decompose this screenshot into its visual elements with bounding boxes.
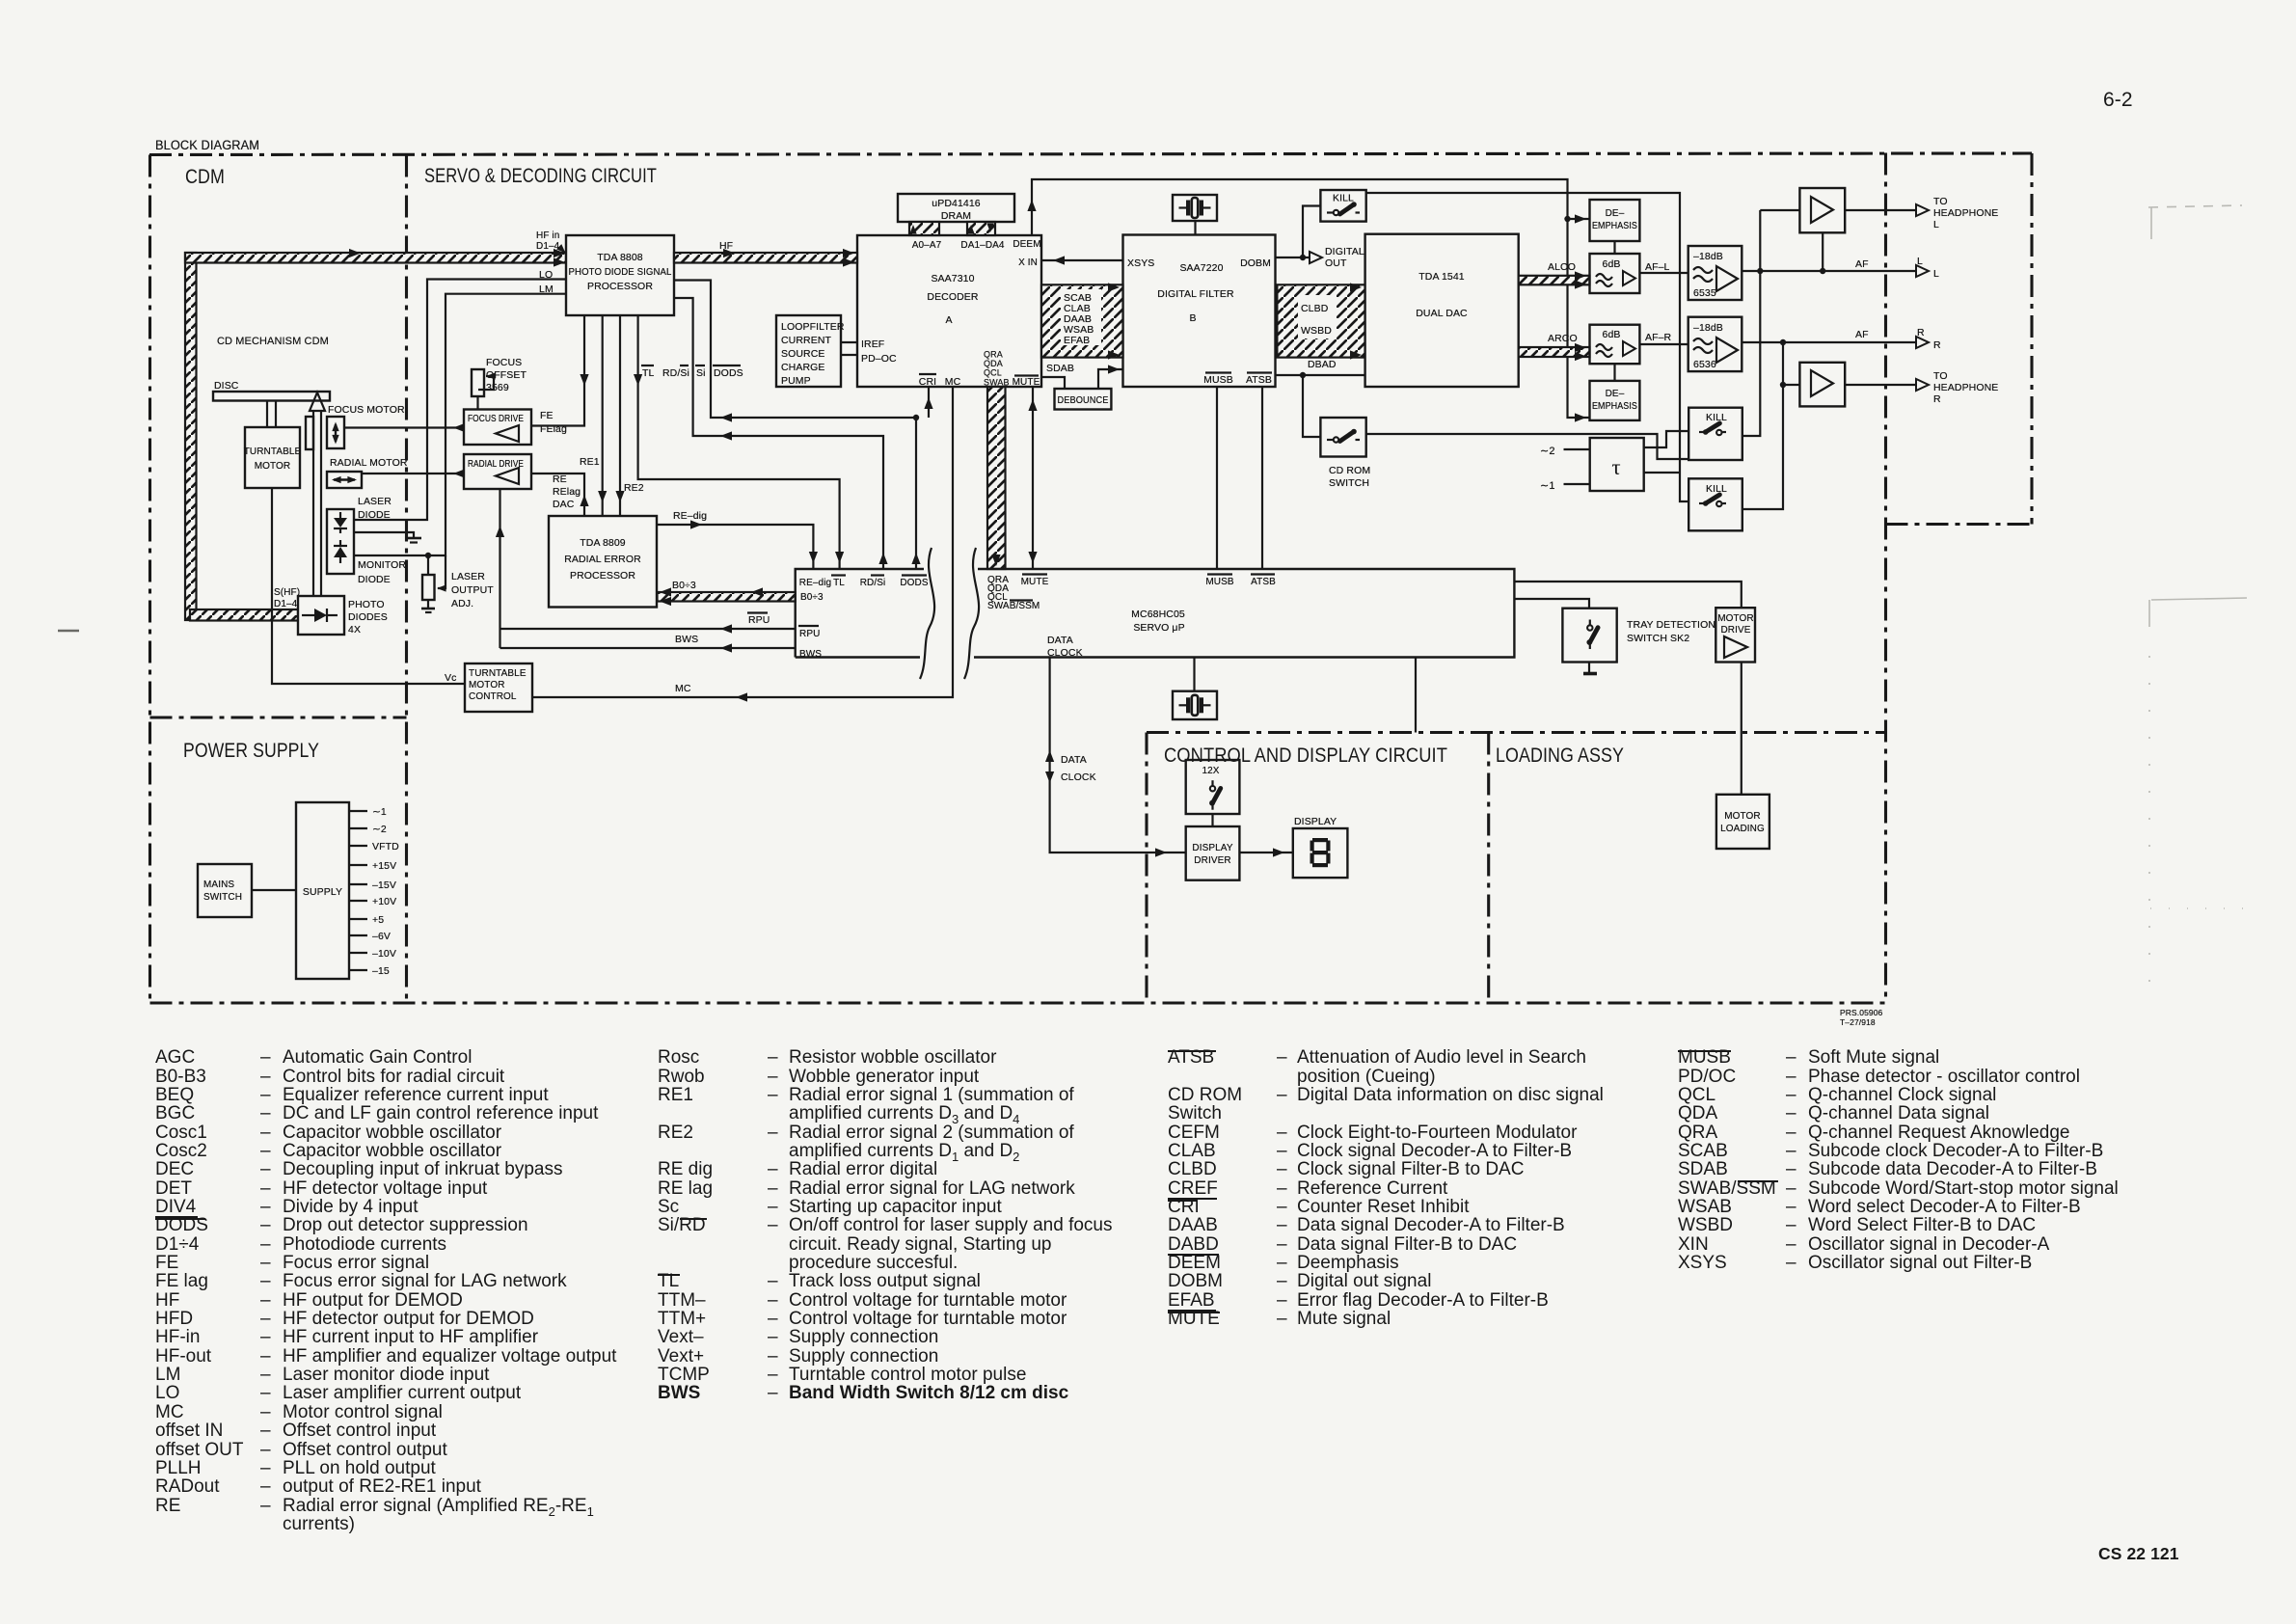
de-emphasis box top — [1590, 200, 1640, 241]
focus offset potentiometer — [472, 369, 484, 396]
LOADING ASSY divider — [1487, 733, 1490, 1004]
svg-text:AF: AF — [1855, 258, 1869, 270]
svg-text:RPU: RPU — [799, 629, 820, 639]
wire motor drive to motor loading — [1741, 663, 1742, 795]
svg-text:LASER: LASER — [358, 496, 392, 507]
svg-text:TO: TO — [1933, 370, 1948, 382]
svg-text:PROCESSOR: PROCESSOR — [587, 281, 653, 292]
svg-text:CLOCK: CLOCK — [1047, 647, 1083, 659]
svg-text:6-2: 6-2 — [2103, 89, 2133, 111]
wire servo to tray switch — [1514, 599, 1589, 609]
svg-text:MOTOR: MOTOR — [255, 461, 291, 472]
photo diodes box — [298, 596, 344, 635]
wire DEEM to de-emphasis — [1032, 179, 1590, 418]
svg-text:DIODE: DIODE — [358, 574, 391, 585]
arrow on photodiode bus mid — [349, 249, 361, 257]
wire laser diode centre to ground — [354, 532, 414, 537]
svg-text:MOTOR: MOTOR — [1724, 811, 1761, 822]
svg-text:MOTOR: MOTOR — [469, 680, 505, 690]
svg-text:DUAL DAC: DUAL DAC — [1416, 308, 1468, 319]
svg-text:KILL: KILL — [1333, 193, 1354, 204]
svg-text:MUTE: MUTE — [1013, 377, 1040, 388]
svg-text:B: B — [1189, 312, 1196, 324]
svg-text:DISC: DISC — [214, 380, 239, 392]
svg-text:4X: 4X — [348, 624, 361, 636]
svg-text:B0÷3: B0÷3 — [672, 580, 696, 591]
svg-text:TDA 1541: TDA 1541 — [1418, 271, 1465, 283]
-18dB 6536 box — [1688, 317, 1742, 371]
wire FE FElag from TDA8808 to focus drive — [531, 315, 584, 426]
svg-text:RE1: RE1 — [580, 456, 600, 468]
wire MUTE SAA7310 to servo — [1032, 387, 1034, 569]
wire MC from SAA7310 to turntable motor control — [532, 387, 953, 697]
svg-text:QDA: QDA — [984, 359, 1003, 368]
mains switch box — [198, 864, 252, 917]
svg-text:6536: 6536 — [1693, 359, 1716, 370]
svg-text:RElag: RElag — [553, 486, 581, 498]
svg-text:DIGITAL FILTER: DIGITAL FILTER — [1157, 288, 1234, 300]
svg-text:DBAD: DBAD — [1308, 359, 1337, 370]
motor loading box — [1716, 795, 1769, 849]
wire kill2 riser — [1742, 342, 1783, 509]
svg-text:CLOCK: CLOCK — [1061, 771, 1096, 783]
hatched bus CLBD WSBD — [1277, 284, 1364, 357]
svg-text:DRIVE: DRIVE — [1720, 625, 1750, 636]
DRAM uPD41416 box — [898, 194, 1014, 222]
svg-text:–10V: –10V — [372, 948, 396, 960]
junction DEEM top branch — [1564, 216, 1570, 222]
6dB filter box top — [1590, 254, 1640, 293]
svg-text:ALCO: ALCO — [1548, 261, 1576, 273]
supply box — [296, 802, 349, 979]
output sub-box right border — [2030, 153, 2033, 525]
svg-text:FOCUS: FOCUS — [486, 357, 522, 368]
svg-text:SWAB: SWAB — [984, 377, 1010, 387]
svg-text:S(HF): S(HF) — [274, 587, 300, 598]
wire headphone L amp input — [1760, 209, 1799, 211]
svg-text:AF: AF — [1855, 329, 1869, 340]
svg-text:ATSB: ATSB — [1251, 577, 1276, 587]
junction laser output adj — [425, 553, 431, 558]
svg-text:FE: FE — [540, 410, 554, 421]
svg-text:–18dB: –18dB — [1693, 251, 1723, 262]
svg-text:RD/Si: RD/Si — [662, 367, 689, 379]
junction DODS CRI — [913, 415, 919, 420]
svg-text:DIODES: DIODES — [348, 611, 388, 623]
svg-text:XSYS: XSYS — [1127, 257, 1154, 269]
main border bottom — [150, 1001, 1887, 1004]
svg-text:LOADING: LOADING — [1720, 824, 1765, 834]
wire headphone R amp input — [1783, 384, 1799, 386]
wire BWS — [500, 647, 796, 649]
wire de-emphasis to 6dB top — [1613, 241, 1615, 254]
svg-text:uPD41416: uPD41416 — [932, 198, 980, 209]
svg-text:X IN: X IN — [1018, 257, 1038, 268]
svg-text:A: A — [945, 314, 952, 326]
svg-text:BLOCK DIAGRAM: BLOCK DIAGRAM — [155, 138, 259, 152]
CONTROL AND DISPLAY top border — [1147, 731, 1886, 734]
svg-text:PRS.05906: PRS.05906 — [1840, 1008, 1883, 1017]
glossary column 2 — [657, 1048, 659, 1403]
svg-text:SWAB/SSM: SWAB/SSM — [987, 601, 1040, 611]
6dB filter box bottom — [1590, 325, 1640, 365]
disc — [213, 392, 330, 401]
wire DATA CLOCK to display driver — [1050, 658, 1186, 853]
scan artifact marks — [2148, 205, 2247, 998]
svg-text:PROCESSOR: PROCESSOR — [570, 570, 635, 582]
laser diode box — [327, 509, 354, 574]
svg-text:DISPLAY: DISPLAY — [1192, 843, 1232, 853]
svg-text:TURNTABLE: TURNTABLE — [244, 447, 302, 457]
svg-text:–15V: –15V — [372, 880, 396, 891]
wire below servo to loading border — [1415, 658, 1417, 733]
focus drive box — [464, 410, 531, 446]
svg-text:∼1: ∼1 — [1540, 480, 1555, 492]
wire RE1 — [602, 315, 604, 516]
svg-text:DODS: DODS — [900, 578, 929, 588]
wire laser diode to LO — [354, 280, 566, 521]
svg-text:+10V: +10V — [372, 896, 396, 907]
svg-text:CLBD: CLBD — [1301, 303, 1329, 314]
wire headphone R amp output — [1845, 384, 1917, 386]
glossary column 3 — [1167, 1048, 1169, 1328]
hatched photodiode bus top horizontal to TDA8808 — [185, 253, 566, 263]
svg-text:CRI: CRI — [919, 376, 936, 388]
svg-text:Vc: Vc — [445, 672, 456, 684]
wire kill1 riser — [1742, 210, 1761, 436]
svg-text:LASER: LASER — [451, 571, 485, 582]
svg-text:TL: TL — [642, 367, 655, 379]
cd rom switch box — [1320, 418, 1365, 457]
main border right vertical — [1884, 153, 1887, 1004]
wire RD/SI from servo to TDA8808 — [674, 298, 883, 569]
de-emphasis box bottom — [1590, 381, 1640, 420]
svg-text:MOTOR: MOTOR — [1717, 613, 1754, 624]
svg-text:DRAM: DRAM — [941, 210, 971, 222]
CONTROL AND DISPLAY left border — [1145, 733, 1148, 1004]
svg-text:EMPHASIS: EMPHASIS — [1592, 401, 1637, 412]
svg-text:HEADPHONE: HEADPHONE — [1933, 382, 1998, 393]
svg-text:CD ROM: CD ROM — [1329, 465, 1370, 476]
svg-text:MC: MC — [945, 376, 961, 388]
svg-text:PHOTO DIODE SIGNAL: PHOTO DIODE SIGNAL — [569, 266, 672, 278]
svg-text:DODS: DODS — [714, 367, 743, 379]
hatched bus QRA QDA QCL SWAB to servo — [987, 387, 1006, 569]
kill switch box top — [1320, 190, 1365, 222]
IC TDA1541 dual DAC — [1365, 234, 1519, 387]
laser diode symbol — [339, 512, 341, 518]
svg-text:ADJ.: ADJ. — [451, 598, 473, 609]
svg-text:IREF: IREF — [861, 338, 884, 350]
svg-text:DIGITAL: DIGITAL — [1325, 246, 1364, 257]
svg-text:TO: TO — [1933, 196, 1948, 207]
output sub-box bottom border — [1886, 523, 2033, 526]
spindle — [266, 401, 268, 428]
radial motor — [327, 472, 362, 488]
glossary column 1 — [154, 1048, 156, 1533]
wire CRI to SAA7310 — [928, 387, 930, 418]
svg-text:QCL: QCL — [984, 368, 1002, 378]
wire R audio line — [1742, 341, 1917, 343]
IC TDA8809 radial error processor — [549, 516, 657, 608]
svg-text:DE–: DE– — [1606, 389, 1625, 399]
wire focus drive to focus motor — [344, 426, 464, 428]
kill switch box 1 — [1688, 408, 1742, 460]
display driver box — [1186, 826, 1240, 880]
hatched stub DA1-DA4 — [967, 222, 995, 235]
focus motor — [327, 417, 344, 448]
svg-text:KILL: KILL — [1706, 412, 1727, 423]
svg-text:PD–OC: PD–OC — [861, 353, 897, 365]
hatched photodiode bus vertical — [185, 253, 197, 620]
svg-text:R: R — [1933, 393, 1941, 405]
svg-text:TL: TL — [833, 578, 845, 588]
svg-text:D1–4: D1–4 — [536, 241, 560, 252]
svg-text:CURRENT: CURRENT — [781, 335, 832, 346]
svg-text:DATA: DATA — [1047, 635, 1073, 646]
svg-text:SWITCH SK2: SWITCH SK2 — [1627, 633, 1689, 644]
wire cd rom switch to kill1 — [1366, 434, 1689, 459]
servo box break marks — [920, 548, 934, 679]
wire 6dB bottom to de-emphasis bottom — [1613, 364, 1615, 381]
svg-text:CDM: CDM — [185, 165, 225, 188]
crystal box servo — [1173, 691, 1217, 719]
wire SDAB to debounce — [1041, 377, 1065, 389]
svg-text:HF in: HF in — [536, 230, 559, 241]
main border top — [149, 153, 2032, 155]
wire MUSB SAA7220 to servo — [1216, 387, 1218, 569]
svg-text:RD/Si: RD/Si — [860, 578, 886, 588]
svg-text:ARCO: ARCO — [1548, 333, 1578, 344]
svg-text:TDA 8809: TDA 8809 — [580, 537, 626, 549]
turntable motor control box — [465, 663, 532, 712]
wire AF-L — [1639, 272, 1688, 274]
wire tau to kill chain stub — [1644, 472, 1680, 474]
wire mains to supply — [252, 889, 296, 891]
CDM / POWER SUPPLY divider — [150, 716, 407, 718]
svg-text:CS 22 121: CS 22 121 — [2098, 1544, 2179, 1563]
wire XSYS — [1041, 259, 1123, 261]
svg-text:–18dB: –18dB — [1693, 322, 1723, 334]
hatched bus SCAB CLAB DAAB WSAB EFAB — [1041, 284, 1123, 357]
wire DODS CRI from servo to TDA8808 — [674, 281, 916, 570]
svg-text:DA1–DA4: DA1–DA4 — [960, 240, 1005, 251]
svg-text:SDAB: SDAB — [1046, 363, 1074, 374]
svg-text:DRIVER: DRIVER — [1194, 855, 1230, 866]
hatched bus B0-3 — [658, 592, 796, 602]
svg-text:WSBD: WSBD — [1301, 325, 1332, 337]
junction L line amp tap — [1757, 268, 1763, 274]
wire DBAD — [1276, 374, 1365, 376]
svg-text:+15V: +15V — [372, 860, 396, 872]
svg-text:SAA7220: SAA7220 — [1179, 262, 1223, 274]
svg-text:CD MECHANISM CDM: CD MECHANISM CDM — [217, 336, 329, 347]
focus actuator rect — [306, 417, 313, 449]
svg-text:L: L — [1917, 256, 1923, 267]
svg-text:OUTPUT: OUTPUT — [451, 584, 494, 596]
svg-text:TRAY DETECTION: TRAY DETECTION — [1627, 619, 1715, 631]
svg-text:DECODER: DECODER — [927, 291, 979, 303]
wire IREF — [841, 341, 857, 343]
wire debounce to SAA7220 — [1098, 369, 1123, 389]
svg-text:QRA: QRA — [984, 350, 1003, 360]
svg-text:RE2: RE2 — [624, 482, 644, 494]
tray switch ground — [1588, 663, 1590, 673]
wire ATSB SAA7220 to servo — [1261, 387, 1263, 569]
wire DOBM to kill switch — [1303, 206, 1320, 258]
wire amp top to L line — [1822, 232, 1823, 271]
svg-text:DAC: DAC — [553, 499, 575, 510]
glossary column 4 — [1677, 1048, 1679, 1272]
svg-text:–15: –15 — [372, 965, 390, 977]
wire RE-dig — [657, 525, 813, 569]
IC SAA7220 digital filter B — [1123, 235, 1276, 388]
tray detection switch box — [1562, 609, 1616, 663]
display box — [1293, 828, 1348, 878]
svg-text:SWITCH: SWITCH — [203, 892, 242, 903]
loopfilter current source charge pump box — [776, 315, 841, 387]
wire RE RElag DAC from TDA8809 to radial drive — [531, 474, 584, 516]
svg-text:B0÷3: B0÷3 — [800, 592, 824, 603]
svg-text:MONITOR: MONITOR — [358, 559, 406, 571]
kill switch box 2 — [1688, 478, 1742, 530]
IC TDA8808 photo diode signal processor — [566, 235, 674, 315]
wire turntable motor to Vc — [272, 488, 465, 684]
svg-text:SERVO μP: SERVO μP — [1133, 622, 1184, 634]
laser output adj potentiometer — [427, 555, 429, 575]
svg-text:TURNTABLE: TURNTABLE — [469, 668, 527, 679]
wire RE2 — [619, 315, 621, 516]
hatched photodiode bus bottom horizontal to photo diodes — [190, 609, 298, 621]
svg-text:TDA 8808: TDA 8808 — [597, 252, 643, 263]
svg-text:ATSB: ATSB — [1246, 374, 1272, 386]
12X switch box — [1186, 760, 1240, 814]
svg-text:L: L — [1933, 219, 1939, 230]
crystal box SAA7220 — [1173, 195, 1217, 221]
svg-text:∼1: ∼1 — [372, 806, 387, 818]
wire radial drive to radial motor — [362, 473, 464, 474]
crystal symbol servo — [1179, 695, 1211, 716]
wire crystal to SAA7220 — [1194, 221, 1196, 235]
headphone amp box right — [1799, 363, 1845, 407]
svg-text:Si: Si — [696, 367, 706, 379]
motor drive box — [1715, 608, 1755, 662]
wire L audio line — [1742, 270, 1917, 272]
wire RPU BWS riser to radial drive — [499, 489, 500, 648]
tau timer box — [1590, 438, 1644, 491]
wire display driver to display — [1239, 852, 1292, 853]
svg-text:EMPHASIS: EMPHASIS — [1592, 221, 1637, 231]
svg-text:6dB: 6dB — [1603, 329, 1621, 340]
svg-text:BWS: BWS — [799, 649, 822, 660]
wire kill top to tau chain — [1366, 193, 1689, 501]
svg-text:RE–dig: RE–dig — [673, 510, 707, 522]
svg-text:OUT: OUT — [1325, 257, 1347, 269]
svg-text:HEADPHONE: HEADPHONE — [1933, 207, 1998, 219]
svg-text:∼2: ∼2 — [1540, 446, 1555, 457]
svg-text:HF: HF — [719, 240, 733, 252]
IC SAA7310 decoder A — [857, 235, 1041, 387]
hatched bus ARCO — [1519, 347, 1590, 357]
svg-text:MUSB: MUSB — [1205, 577, 1234, 587]
svg-text:SAA7310: SAA7310 — [931, 273, 974, 284]
wire TL from TDA8808 to servo — [638, 315, 840, 569]
svg-text:LOOPFILTER: LOOPFILTER — [781, 321, 845, 333]
wire 12X to display driver — [1211, 814, 1213, 826]
svg-text:POWER SUPPLY: POWER SUPPLY — [183, 739, 319, 762]
svg-text:RPU: RPU — [748, 614, 770, 626]
svg-text:6535: 6535 — [1693, 287, 1716, 299]
svg-text:FOCUS MOTOR: FOCUS MOTOR — [328, 404, 405, 416]
svg-text:MC: MC — [675, 683, 691, 694]
pickup arm — [312, 410, 314, 615]
svg-text:EFAB: EFAB — [1064, 335, 1090, 346]
wire monitor diode to LM — [354, 294, 566, 555]
svg-text:+5: +5 — [372, 914, 384, 926]
svg-text:FOCUS DRIVE: FOCUS DRIVE — [468, 413, 524, 424]
svg-text:VFTD: VFTD — [372, 841, 399, 853]
debounce box — [1055, 389, 1112, 410]
svg-text:DEEM: DEEM — [1013, 239, 1040, 250]
svg-text:D1–4: D1–4 — [274, 599, 298, 609]
IC MC68HC05 servo microprocessor — [796, 569, 1515, 658]
svg-text:L: L — [1933, 268, 1939, 280]
svg-text:SOURCE: SOURCE — [781, 348, 825, 360]
wire tau output1 to kill1 — [1644, 431, 1689, 447]
wire servo to motor drive — [1514, 582, 1741, 608]
svg-text:τ: τ — [1611, 455, 1620, 479]
main border left — [149, 155, 151, 1004]
CDM / SERVO divider — [405, 155, 408, 1004]
svg-text:RE–dig: RE–dig — [799, 578, 831, 588]
svg-text:CONTROL AND DISPLAY CIRCUIT: CONTROL AND DISPLAY CIRCUIT — [1164, 744, 1447, 767]
svg-text:KILL: KILL — [1706, 483, 1727, 495]
wire wiper loop — [438, 555, 446, 588]
radial drive box — [464, 454, 531, 489]
photo diode symbol — [302, 614, 314, 616]
svg-text:DISPLAY: DISPLAY — [1294, 816, 1337, 827]
headphone amp box left — [1799, 188, 1845, 232]
svg-text:LO: LO — [539, 269, 553, 281]
hatched bus ALCO — [1519, 276, 1590, 285]
hatched stub A0-A7 — [909, 222, 939, 235]
wire DOBM digital out — [1276, 257, 1312, 258]
svg-text:12X: 12X — [1202, 766, 1219, 776]
wire DBAD to cd rom switch — [1303, 375, 1320, 437]
hatched bus HF — [674, 253, 857, 263]
svg-text:SWITCH: SWITCH — [1329, 477, 1369, 489]
-18dB 6535 box — [1688, 246, 1742, 300]
svg-text:MC68HC05: MC68HC05 — [1131, 609, 1185, 620]
svg-text:–6V: –6V — [372, 931, 391, 942]
crystal symbol SAA7220 — [1179, 198, 1211, 218]
svg-text:RADIAL ERROR: RADIAL ERROR — [564, 554, 641, 565]
svg-text:DE–: DE– — [1606, 208, 1625, 219]
svg-text:BWS: BWS — [675, 634, 698, 645]
svg-text:6dB: 6dB — [1603, 258, 1621, 270]
svg-text:MAINS: MAINS — [203, 880, 234, 890]
svg-text:PHOTO: PHOTO — [348, 599, 385, 610]
svg-text:RE: RE — [553, 474, 567, 485]
svg-text:MUTE: MUTE — [1021, 577, 1049, 587]
svg-text:DOBM: DOBM — [1240, 257, 1271, 269]
svg-text:AF–R: AF–R — [1645, 332, 1672, 343]
wire PD-OC — [841, 354, 857, 356]
svg-text:T–27/918: T–27/918 — [1840, 1017, 1876, 1027]
svg-text:∼2: ∼2 — [372, 824, 387, 835]
svg-text:R: R — [1933, 339, 1941, 351]
svg-text:SUPPLY: SUPPLY — [303, 886, 342, 898]
